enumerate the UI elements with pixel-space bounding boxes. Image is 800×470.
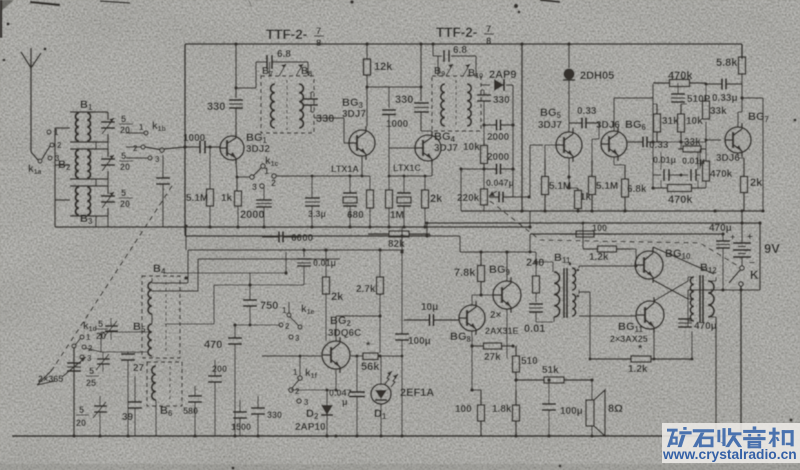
- svg-text:0.01μ: 0.01μ: [682, 156, 705, 166]
- resistor 470k tone bottom: [653, 187, 668, 189]
- capacitor 0.33 BG6 out: [628, 141, 643, 143]
- junction: [758, 221, 762, 225]
- svg-text:3DJ6: 3DJ6: [716, 153, 740, 164]
- junction: [348, 225, 352, 229]
- IF transformer T1 box: [261, 76, 314, 133]
- svg-text:5: 5: [121, 151, 126, 161]
- junction: [284, 271, 288, 275]
- switch k1b: [144, 131, 148, 135]
- wire crossover: [653, 280, 688, 299]
- T2 primary coil: [441, 84, 445, 126]
- junction: [511, 344, 515, 348]
- svg-text:5: 5: [121, 114, 126, 124]
- diode 2AP9: [494, 79, 504, 91]
- junction: [511, 123, 515, 127]
- wire audio ground rail: [461, 210, 763, 212]
- transformer B12 secondary: [708, 281, 714, 317]
- trimmer capacitor RF: [162, 155, 164, 178]
- transistor BG1: [220, 136, 244, 160]
- junction: [590, 434, 594, 438]
- svg-text:3: 3: [295, 334, 300, 343]
- scan mark right: [540, 0, 560, 2]
- resistor 470k tone top: [653, 82, 670, 84]
- svg-text:2: 2: [57, 141, 62, 150]
- paper speck 1: [514, 4, 518, 8]
- LED D1 2EF1A: [371, 384, 391, 404]
- capacitor 0.01 osc2: [529, 303, 543, 305]
- svg-text:25: 25: [86, 378, 96, 388]
- svg-text:750: 750: [260, 300, 278, 312]
- svg-text:20: 20: [76, 418, 86, 428]
- capacitor 330 osc: [257, 396, 259, 408]
- svg-text:3DQ6C: 3DQ6C: [328, 328, 361, 339]
- capacitor 100u osc: [401, 228, 403, 334]
- wire BG3 collector: [366, 87, 368, 126]
- transformer B4 box: [142, 276, 180, 358]
- svg-text:2000: 2000: [487, 152, 510, 163]
- svg-text:1000: 1000: [386, 119, 409, 130]
- wire BG3 emitter: [361, 156, 363, 176]
- resistor 240: [535, 252, 537, 262]
- T1 core dashes: [286, 80, 288, 130]
- wire 10k bottom: [483, 169, 485, 189]
- wire BG11 base: [635, 315, 637, 316]
- wire det out drop: [512, 85, 514, 197]
- transformer B1: [70, 111, 96, 113]
- resistor 510: [515, 346, 517, 356]
- scan mark top2: [30, 2, 60, 5]
- capacitor 330 T2 in: [420, 44, 422, 101]
- capacitor 1000 BG3: [388, 87, 390, 108]
- svg-text:0.01: 0.01: [524, 323, 545, 335]
- junction: [567, 42, 571, 46]
- capacitor 27 osc: [127, 352, 129, 354]
- junction: [590, 209, 594, 213]
- svg-text:39: 39: [122, 412, 134, 423]
- wire BG4 base: [389, 147, 415, 149]
- wire tone left vert: [652, 84, 654, 142]
- transistor BG6: [601, 131, 627, 157]
- resistor 1k BG1: [235, 191, 242, 206]
- wire bottom ground rail: [12, 435, 763, 437]
- junction: [98, 434, 102, 438]
- svg-text:56k: 56k: [361, 361, 380, 373]
- svg-text:100: 100: [592, 223, 607, 233]
- wire BG9 collector: [506, 252, 508, 281]
- junction: [740, 221, 744, 225]
- svg-text:31k: 31k: [662, 116, 679, 127]
- wire 1.2k to BG10 base: [631, 248, 636, 250]
- junction: [310, 225, 314, 229]
- svg-text:10k: 10k: [463, 142, 480, 153]
- wire tone mid: [657, 141, 706, 143]
- transformer B5 coil: [148, 324, 152, 356]
- capacitor 330 det: [483, 90, 485, 95]
- junction: [713, 209, 717, 213]
- svg-text:7: 7: [486, 24, 491, 35]
- svg-text:*: *: [366, 340, 371, 352]
- svg-text:7.8k: 7.8k: [454, 267, 476, 279]
- paper shadow bottom: [0, 464, 800, 470]
- transistor BG9: [493, 281, 521, 309]
- watermark box: [662, 423, 800, 463]
- resistor 2k osc: [325, 250, 327, 277]
- junction: [365, 42, 369, 46]
- svg-text:1: 1: [293, 368, 298, 377]
- svg-text:*: *: [638, 343, 643, 355]
- junction: [324, 248, 328, 252]
- svg-text:2: 2: [133, 144, 138, 153]
- junction: [400, 434, 404, 438]
- capacitor 330 T1 right: [310, 92, 312, 99]
- resistor 470k BG7 base: [705, 140, 707, 161]
- junction: [543, 209, 547, 213]
- junction: [547, 434, 551, 438]
- resistor 5.1M BG5: [544, 160, 546, 177]
- B4 core dashes: [165, 282, 167, 352]
- svg-text:5: 5: [98, 319, 103, 329]
- svg-text:LTX1A: LTX1A: [331, 164, 359, 174]
- svg-text:100: 100: [455, 404, 472, 415]
- junction: [325, 434, 329, 438]
- svg-text:2EF1A: 2EF1A: [400, 387, 434, 399]
- junction: [479, 250, 483, 254]
- capacitor 0.047u osc: [356, 356, 358, 391]
- capacitor 470 osc: [234, 325, 236, 338]
- B12 core: [699, 275, 701, 323]
- junction: [334, 434, 338, 438]
- transistor BG4: [415, 135, 441, 161]
- wire BG8 collector: [471, 295, 473, 305]
- capacitor 0.33 BG5-BG6: [569, 122, 575, 124]
- junction: [184, 276, 188, 280]
- resistor 680: [369, 176, 371, 190]
- svg-text:1.2k: 1.2k: [628, 364, 648, 375]
- wire speaker top: [591, 380, 593, 400]
- resistor 56k: [351, 355, 363, 357]
- junction: [400, 234, 404, 238]
- svg-text:1.2k: 1.2k: [589, 252, 609, 263]
- wire coil link: [101, 331, 149, 333]
- wire k1b to bus: [164, 147, 185, 149]
- svg-text:TTF-2-: TTF-2-: [266, 27, 307, 42]
- wire osc bus C: [285, 252, 287, 273]
- svg-text:3: 3: [304, 398, 309, 407]
- wire BG2 collector: [335, 316, 337, 341]
- transformer B6 box: [147, 362, 182, 406]
- svg-text:+: +: [747, 232, 753, 243]
- wire coil bank left: [54, 128, 56, 227]
- junction: [482, 167, 486, 171]
- svg-text:470μ: 470μ: [694, 321, 717, 332]
- wire osc bus A: [188, 249, 404, 251]
- resistor 1.8k: [515, 390, 517, 405]
- potentiometer 220k volume: [483, 188, 485, 190]
- svg-text:470μ: 470μ: [709, 223, 732, 234]
- wire battery feed rail: [530, 233, 723, 235]
- svg-text:470: 470: [204, 339, 222, 351]
- svg-text:510P: 510P: [687, 94, 711, 105]
- svg-text:2: 2: [295, 387, 300, 396]
- junction: [262, 225, 266, 229]
- ganged tuning dashed link: [52, 186, 172, 370]
- wire T2 top to diode: [481, 84, 490, 86]
- svg-text:5.1M: 5.1M: [596, 181, 618, 192]
- resistor 5.1M BG6: [591, 160, 593, 177]
- resistor 10k tone: [680, 104, 682, 114]
- resistor 1M: [388, 176, 390, 190]
- svg-text:6.8k: 6.8k: [627, 184, 647, 195]
- resistor 33k right: [705, 84, 707, 101]
- transistor BG8: [459, 305, 485, 331]
- junction: [714, 434, 718, 438]
- svg-text:51k: 51k: [542, 365, 559, 376]
- IF transformer T2 box: [432, 76, 481, 131]
- T1 secondary coil: [299, 84, 303, 128]
- wire left IF bus vertical: [184, 44, 186, 236]
- wire RF ground rail: [55, 226, 530, 228]
- junction: [256, 434, 260, 438]
- wire 51k node: [515, 382, 517, 390]
- junction: [567, 186, 571, 190]
- junction: [547, 378, 551, 382]
- junction: [368, 225, 372, 229]
- capacitor 1000: [185, 146, 200, 148]
- trimmer k1d: [110, 318, 112, 325]
- wire T1 out to BG3 base: [314, 117, 344, 119]
- svg-text:LTX1C: LTX1C: [393, 163, 421, 173]
- svg-text:330: 330: [207, 101, 225, 113]
- svg-text:7: 7: [316, 26, 321, 37]
- svg-text:3: 3: [252, 182, 257, 192]
- wire BG4 emitter: [431, 165, 433, 176]
- svg-text:220k: 220k: [457, 193, 480, 204]
- svg-text:0.33μ: 0.33μ: [712, 93, 738, 104]
- junction: [470, 388, 474, 392]
- junction: [208, 225, 212, 229]
- resistor 31k: [656, 104, 658, 114]
- capacitor 0.01u osc: [303, 250, 305, 257]
- scan mark top: [248, 0, 252, 8]
- junction: [378, 248, 382, 252]
- wire B11 sec taps: [572, 267, 579, 269]
- capacitor 0.047u det: [489, 196, 499, 198]
- variable capacitor gang osc section: [73, 349, 75, 361]
- wire BG11 emitter: [652, 357, 655, 360]
- paper speck 3: [6, 22, 9, 25]
- svg-text:580: 580: [183, 406, 198, 416]
- resistor 1k BG5: [577, 188, 579, 191]
- svg-text:3: 3: [87, 354, 92, 363]
- thermistor 2DH05: [568, 44, 570, 68]
- junction: [193, 434, 197, 438]
- junction: [479, 293, 483, 297]
- svg-text:1k: 1k: [580, 192, 592, 203]
- junction: [721, 232, 725, 236]
- resistor 1.2k bottom: [590, 358, 631, 360]
- resistor 82k: [368, 233, 389, 235]
- T2 secondary coil: [467, 84, 471, 126]
- wire 2k osc join: [326, 340, 336, 342]
- junction: [400, 250, 404, 254]
- capacitor 6.8 T1: [255, 62, 257, 88]
- wire 12k to 330 T2: [367, 86, 421, 88]
- wire BG5 emitter: [568, 158, 570, 188]
- junction: [248, 283, 252, 287]
- wire mid rail left drop: [529, 211, 531, 227]
- svg-text:3.3μ: 3.3μ: [308, 209, 326, 219]
- svg-text:8: 8: [316, 38, 321, 49]
- svg-text:5.8k: 5.8k: [716, 57, 738, 69]
- resistor 7.8k: [480, 252, 482, 266]
- B6 core dashes: [169, 366, 171, 400]
- svg-text:10k: 10k: [686, 116, 703, 127]
- wire BG6 collector: [613, 98, 615, 131]
- resistor 2.7k: [379, 250, 381, 277]
- transformer B12 primary bottom: [690, 299, 694, 321]
- svg-text:330: 330: [493, 95, 510, 106]
- wire BG7 fb loop: [742, 97, 763, 99]
- paper speck 2: [350, 0, 354, 4]
- transistor BG11: [636, 301, 664, 329]
- svg-text:3DJ7: 3DJ7: [538, 120, 562, 131]
- transformer B3: [70, 185, 96, 187]
- wire B-plus mid rail: [427, 222, 760, 224]
- wire speaker bottom: [591, 426, 593, 436]
- wire mid bus 6000-82k: [185, 235, 430, 237]
- T2 tuning arrows: [446, 64, 453, 76]
- capacitor 470u out: [678, 318, 692, 320]
- svg-text:5: 5: [121, 188, 126, 198]
- transistor BG10: [635, 251, 663, 279]
- switch k1c: [261, 164, 265, 168]
- junction: [402, 225, 406, 229]
- resistor 6.8k BG6: [624, 165, 626, 179]
- wire right edge drop K to ground: [740, 286, 742, 436]
- resistor 10k det: [483, 140, 485, 146]
- svg-text:0.33: 0.33: [577, 106, 597, 117]
- wire B12 center tap: [688, 298, 694, 300]
- svg-text:5: 5: [79, 405, 84, 415]
- svg-text:2AP10: 2AP10: [295, 422, 326, 433]
- svg-text:1k: 1k: [221, 193, 233, 204]
- capacitor 2000 det upper: [484, 124, 497, 126]
- wire BG1 emitter: [236, 160, 237, 177]
- junction: [183, 145, 187, 149]
- capacitor 1500 osc: [239, 400, 241, 412]
- svg-text:+: +: [730, 232, 735, 242]
- wire tone out to BG7: [705, 122, 707, 140]
- capacitor 0.33u fb: [706, 83, 722, 85]
- svg-text:2DH05: 2DH05: [580, 70, 614, 82]
- capacitor 100u audio: [548, 380, 550, 404]
- capacitor 6.8 T2: [432, 44, 434, 56]
- T2 core dashes: [455, 80, 457, 128]
- junction: [126, 434, 130, 438]
- svg-text:K: K: [750, 268, 759, 282]
- svg-text:1000: 1000: [183, 133, 206, 144]
- resistor 51k: [516, 379, 544, 381]
- junction: [72, 434, 76, 438]
- svg-text:3DJ6: 3DJ6: [596, 120, 620, 131]
- capacitor 330 T1 left: [235, 44, 237, 98]
- transistor BG3: [349, 130, 375, 156]
- wire out bottom: [653, 329, 655, 359]
- svg-text:2k: 2k: [750, 177, 763, 189]
- junction: [534, 260, 538, 264]
- junction: [514, 434, 518, 438]
- svg-text:12k: 12k: [374, 61, 393, 73]
- capacitor 6000: [262, 236, 279, 238]
- wire k1e feed: [235, 324, 280, 326]
- wire BG2 base: [262, 355, 321, 357]
- wire audio feed vert: [426, 223, 428, 236]
- wire 033 to collector: [741, 84, 743, 90]
- svg-text:680: 680: [347, 210, 364, 221]
- resistor 33k mid: [678, 148, 683, 150]
- resistor 1.2k top: [583, 248, 598, 250]
- battery 9V: [741, 223, 743, 242]
- capacitor 2000 det lower: [484, 168, 497, 170]
- capacitor 200 osc: [214, 360, 216, 376]
- junction: [184, 224, 188, 228]
- svg-text:1: 1: [264, 166, 269, 176]
- junction: [511, 167, 515, 171]
- svg-text:20: 20: [120, 199, 130, 209]
- transformer B11 sec bottom: [572, 294, 576, 316]
- svg-text:1M: 1M: [390, 210, 404, 221]
- transformer B2: [70, 148, 96, 150]
- svg-text:3DJ7: 3DJ7: [434, 143, 458, 154]
- svg-text:330: 330: [267, 410, 282, 420]
- B11 sec dots: [577, 269, 580, 272]
- capacitor 580 osc: [194, 386, 196, 396]
- svg-text:9V: 9V: [764, 241, 780, 256]
- resistor 5.8k: [741, 44, 743, 57]
- junction: [423, 225, 427, 229]
- svg-text:2AP9: 2AP9: [489, 69, 517, 81]
- wire coil bank bottoms: [95, 142, 97, 149]
- svg-text:5.1M: 5.1M: [186, 193, 208, 204]
- svg-text:2: 2: [285, 322, 290, 331]
- paper speck 5: [232, 467, 235, 470]
- T1 primary coil: [271, 84, 275, 128]
- svg-text:1: 1: [86, 333, 91, 342]
- transformer B12 primary top: [690, 277, 694, 299]
- svg-text:6.8: 6.8: [453, 45, 467, 56]
- capacitor 3.3u: [311, 176, 313, 197]
- svg-text:470k: 470k: [668, 194, 693, 206]
- svg-text:33k: 33k: [710, 106, 727, 117]
- resistor 2k BG7: [743, 158, 745, 177]
- svg-text:510: 510: [521, 356, 538, 367]
- B11 core: [563, 268, 565, 318]
- wire BG2 emitter: [335, 370, 337, 390]
- svg-text:6000: 6000: [291, 233, 314, 244]
- capacitor 750 osc: [249, 273, 251, 300]
- svg-text:2×: 2×: [490, 310, 502, 321]
- junction: [355, 434, 359, 438]
- junction: [302, 248, 306, 252]
- svg-text:330: 330: [395, 94, 413, 106]
- svg-text:27: 27: [133, 363, 145, 374]
- junction: [482, 123, 486, 127]
- junction: [527, 195, 531, 199]
- T1 tuning arrows: [279, 64, 286, 76]
- wire BG9 emitter: [506, 309, 508, 358]
- svg-text:33k: 33k: [684, 137, 701, 148]
- junction: [233, 323, 237, 327]
